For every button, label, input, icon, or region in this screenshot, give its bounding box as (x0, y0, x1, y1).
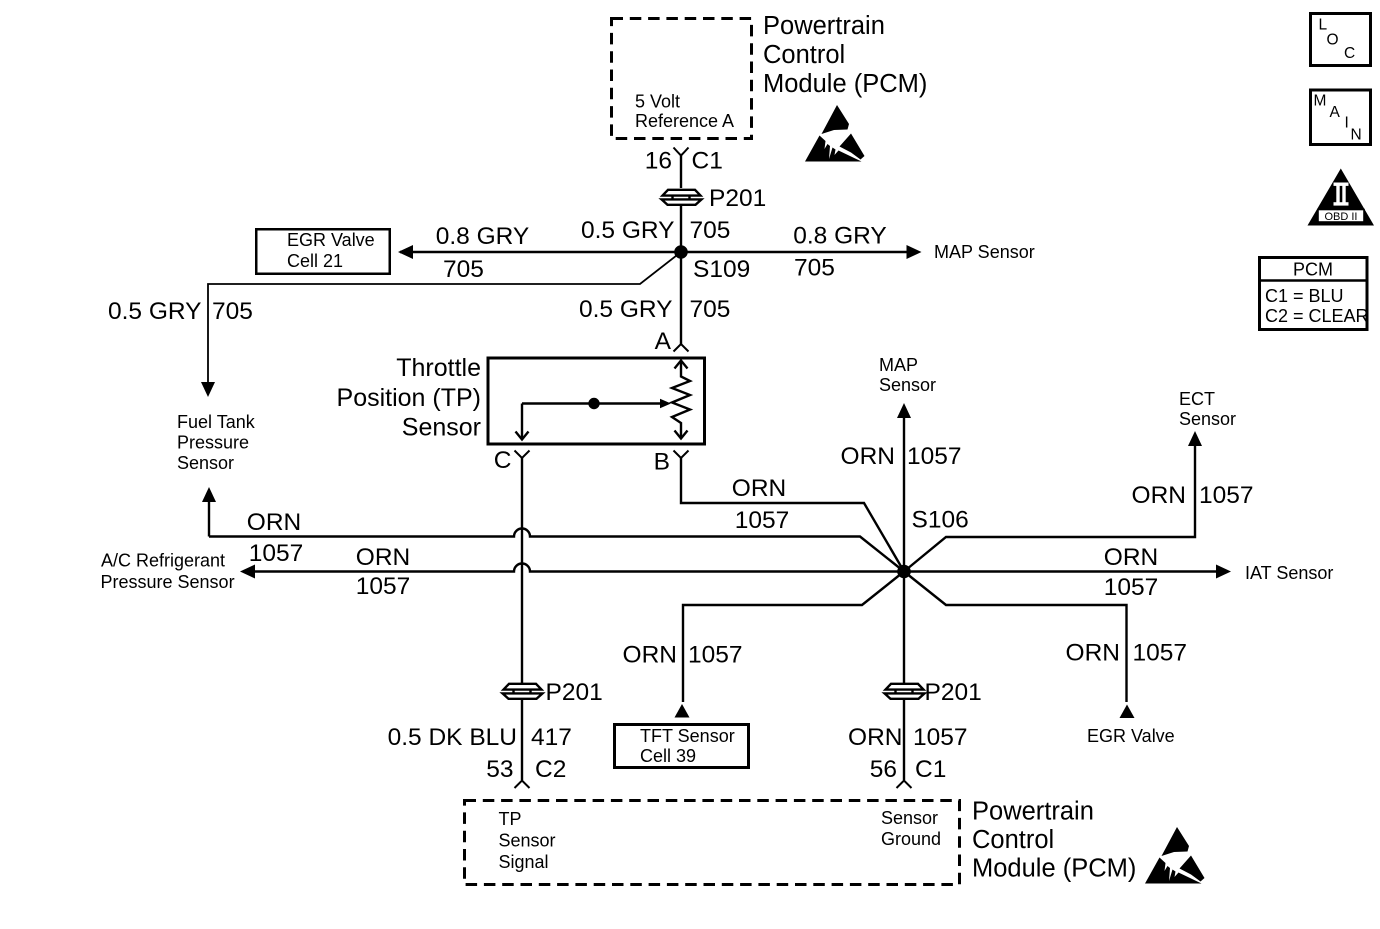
svg-text:ORN: ORN (247, 509, 301, 536)
svg-text:C1 = BLU: C1 = BLU (1265, 286, 1344, 306)
svg-text:Sensor: Sensor (499, 831, 556, 851)
svg-text:S109: S109 (693, 256, 750, 283)
svg-text:Cell 39: Cell 39 (640, 746, 696, 766)
splice S106 (897, 565, 911, 579)
ESD symbol top (805, 105, 865, 162)
wire P201 to pin 53 (521, 698, 523, 780)
svg-text:705: 705 (212, 298, 253, 325)
EGR Valve Cell 21 box (256, 229, 390, 274)
wire fuel-tank ORN branch to S106 (with hop over C wire) (209, 529, 904, 572)
svg-text:0.5 GRY: 0.5 GRY (581, 217, 675, 244)
wire S109 to TP sensor pin A (680, 252, 682, 344)
connector P201 top (662, 190, 702, 205)
svg-text:P201: P201 (925, 679, 982, 706)
svg-text:1057: 1057 (1199, 482, 1254, 509)
svg-text:Cell 21: Cell 21 (287, 251, 343, 271)
PCM dashed box top (5 Volt Reference A) (612, 19, 752, 139)
OBD II triangle symbol (1308, 169, 1375, 226)
svg-text:Powertrain: Powertrain (972, 798, 1094, 826)
wiper arm of potentiometer (516, 399, 672, 440)
svg-text:ORN: ORN (1066, 640, 1120, 667)
svg-text:1057: 1057 (1133, 640, 1188, 667)
arrowhead up to Fuel Tank Pressure Sensor (202, 487, 216, 502)
svg-text:C2: C2 (535, 756, 566, 783)
arrowhead left to EGR Valve (398, 245, 413, 259)
svg-text:ORN: ORN (1104, 544, 1158, 571)
wire pin16 to P201 (680, 156, 682, 189)
svg-text:Sensor: Sensor (881, 808, 938, 828)
label A/C Refrigerant Pressure Sensor (101, 551, 235, 593)
svg-text:1057: 1057 (913, 724, 968, 751)
arrowhead right to MAP Sensor (907, 245, 922, 259)
svg-text:1057: 1057 (688, 642, 743, 669)
svg-text:ORN: ORN (1132, 482, 1186, 509)
wiper node dot (588, 398, 599, 409)
arrowhead left to A/C Refrigerant Pressure Sensor (240, 565, 255, 579)
label MAP Sensor (above) (879, 355, 936, 395)
label Powertrain Control Module (PCM) bottom (972, 798, 1136, 883)
svg-text:Powertrain: Powertrain (763, 12, 885, 40)
PCM connector legend box (1258, 258, 1369, 330)
svg-text:1057: 1057 (907, 443, 962, 470)
svg-text:Pressure Sensor: Pressure Sensor (101, 572, 235, 592)
wire up-arrow stub to Fuel Tank Pressure Sensor (208, 500, 210, 537)
svg-text:MAP: MAP (879, 355, 918, 375)
svg-text:Ground: Ground (881, 829, 941, 849)
svg-text:A: A (1330, 104, 1341, 121)
svg-text:ECT: ECT (1179, 389, 1215, 409)
svg-text:ORN: ORN (732, 475, 786, 502)
svg-text:OBD II: OBD II (1324, 211, 1357, 223)
arrowhead down to Fuel Tank Pressure Sensor (201, 382, 215, 397)
svg-text:Control: Control (763, 41, 845, 69)
svg-text:TP: TP (499, 809, 522, 829)
pin 53 female terminal (515, 781, 530, 789)
label Powertrain Control Module (PCM) top (763, 12, 927, 98)
terminal triangle to EGR Valve (1120, 705, 1135, 719)
svg-text:705: 705 (794, 255, 835, 282)
wire S109 diagonal to fuel tank pressure sensor branch (208, 252, 681, 384)
svg-text:705: 705 (443, 256, 484, 283)
svg-text:Throttle: Throttle (396, 354, 481, 382)
svg-text:EGR Valve: EGR Valve (287, 230, 375, 250)
TFT Sensor Cell 39 box (615, 725, 749, 768)
label Throttle Position (TP) Sensor (337, 354, 481, 442)
svg-text:705: 705 (690, 296, 731, 323)
pin 16 female terminal (674, 148, 689, 156)
svg-text:16: 16 (645, 148, 672, 175)
svg-text:Pressure: Pressure (177, 433, 249, 453)
arrowhead up to MAP Sensor (897, 403, 911, 418)
svg-text:Control: Control (972, 826, 1054, 854)
svg-text:0.5 GRY: 0.5 GRY (108, 298, 202, 325)
svg-text:P201: P201 (546, 679, 603, 706)
svg-text:1057: 1057 (356, 573, 411, 600)
svg-text:I: I (1345, 115, 1349, 132)
svg-text:MAP Sensor: MAP Sensor (934, 242, 1035, 262)
connector P201 bottom left (503, 684, 543, 699)
svg-text:ORN: ORN (356, 544, 410, 571)
wire S106 to ECT Sensor (904, 444, 1195, 572)
svg-text:417: 417 (531, 724, 572, 751)
svg-text:EGR Valve: EGR Valve (1087, 726, 1175, 746)
wire S109 left to EGR Valve arrow (400, 251, 681, 253)
label Fuel Tank Pressure Sensor (177, 412, 256, 473)
svg-text:IAT Sensor: IAT Sensor (1245, 563, 1333, 583)
svg-text:1057: 1057 (249, 540, 304, 567)
svg-text:1057: 1057 (1104, 574, 1159, 601)
wire S106 down to P201 (903, 572, 905, 684)
label TP Sensor Signal (499, 809, 556, 872)
svg-text:Signal: Signal (499, 852, 549, 872)
LOC legend box (1311, 14, 1371, 66)
wire S106 up to MAP Sensor (903, 416, 905, 572)
ESD symbol bottom (1145, 827, 1205, 884)
pin A female terminal (674, 344, 689, 352)
wire S106 to EGR Valve (904, 572, 1127, 703)
svg-text:5 Volt: 5 Volt (635, 92, 680, 112)
terminal triangle to TFT Sensor (675, 704, 690, 718)
svg-text:Fuel Tank: Fuel Tank (177, 412, 256, 432)
wire pin B to S106 (681, 458, 904, 572)
wire S106 to TFT Sensor (683, 572, 904, 703)
svg-text:1057: 1057 (735, 507, 790, 534)
svg-text:0.5 DK BLU: 0.5 DK BLU (388, 724, 517, 751)
arrowhead up to ECT Sensor (1188, 431, 1202, 446)
MAIN legend box (1311, 90, 1371, 145)
svg-text:M: M (1314, 93, 1327, 110)
svg-text:ORN: ORN (848, 724, 902, 751)
svg-text:N: N (1351, 127, 1362, 144)
wire S109 right to MAP Sensor arrow (681, 251, 908, 253)
svg-text:C1: C1 (692, 148, 723, 175)
svg-text:0.5 GRY: 0.5 GRY (579, 296, 673, 323)
pin 56 female terminal (897, 781, 912, 789)
splice S109 (674, 245, 688, 259)
svg-text:Sensor: Sensor (879, 375, 936, 395)
pin B female terminal (674, 451, 689, 459)
svg-text:0.8 GRY: 0.8 GRY (793, 223, 887, 250)
svg-text:Reference A: Reference A (635, 111, 734, 131)
svg-text:A/C Refrigerant: A/C Refrigerant (101, 551, 225, 571)
arrowhead right to IAT Sensor (1216, 565, 1231, 579)
wire A/C refrigerant to IAT through S106 (with hop over C wire) (254, 564, 1217, 572)
MAIN letters (1314, 93, 1362, 144)
LOC letters (1319, 17, 1356, 63)
svg-text:C1: C1 (915, 756, 946, 783)
wire pin C down to P201 (521, 458, 523, 683)
resistor element inside TP sensor (potentiometer track) (672, 361, 690, 439)
label TFT Sensor Cell 39 (640, 726, 735, 766)
svg-text:Sensor: Sensor (1179, 409, 1236, 429)
svg-text:ORN: ORN (841, 443, 895, 470)
svg-text:S106: S106 (912, 507, 969, 534)
svg-text:C: C (494, 447, 512, 474)
Throttle Position (TP) Sensor box (488, 358, 705, 444)
wire P201 to pin 56 (903, 698, 905, 780)
svg-text:0.8 GRY: 0.8 GRY (436, 223, 530, 250)
svg-text:Position (TP): Position (TP) (337, 384, 481, 412)
svg-text:C: C (1344, 45, 1355, 62)
label Sensor Ground (881, 808, 941, 849)
svg-text:A: A (655, 328, 672, 355)
wire P201 to S109 (680, 204, 682, 252)
svg-text:B: B (654, 449, 670, 476)
svg-text:Module (PCM): Module (PCM) (972, 855, 1136, 883)
svg-text:P201: P201 (709, 185, 766, 212)
label EGR Valve Cell 21 (287, 230, 375, 271)
label ECT Sensor (1179, 389, 1236, 429)
pin C female terminal (515, 451, 530, 459)
svg-text:56: 56 (870, 756, 897, 783)
label 5 Volt Reference A (635, 92, 734, 132)
svg-text:Sensor: Sensor (402, 414, 481, 442)
svg-text:O: O (1327, 32, 1339, 49)
svg-text:C2 = CLEAR: C2 = CLEAR (1265, 306, 1369, 326)
PCM dashed box bottom (465, 801, 960, 885)
svg-text:53: 53 (486, 756, 513, 783)
svg-text:705: 705 (690, 217, 731, 244)
svg-text:TFT Sensor: TFT Sensor (640, 726, 735, 746)
svg-text:Sensor: Sensor (177, 453, 234, 473)
svg-text:Module (PCM): Module (PCM) (763, 70, 927, 98)
svg-text:ORN: ORN (623, 642, 677, 669)
connector P201 bottom right (885, 684, 925, 699)
svg-text:PCM: PCM (1293, 260, 1333, 280)
